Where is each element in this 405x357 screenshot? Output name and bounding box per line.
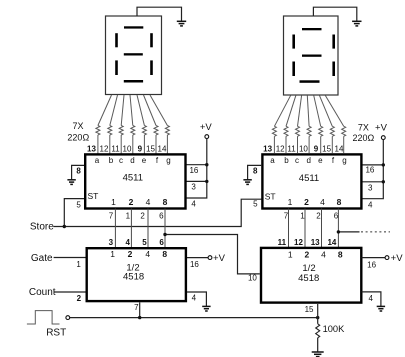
svg-text:5: 5 bbox=[142, 238, 147, 247]
wires DS2 segment fan-out bbox=[274, 95, 343, 126]
svg-text:2: 2 bbox=[316, 212, 321, 221]
svg-text:10: 10 bbox=[123, 145, 132, 154]
U1 top pin numbers bbox=[87, 145, 167, 154]
svg-text:2: 2 bbox=[304, 197, 309, 207]
svg-text:5: 5 bbox=[76, 200, 81, 209]
svg-text:14: 14 bbox=[158, 145, 167, 154]
DS1 segment a bbox=[124, 26, 143, 28]
svg-text:a: a bbox=[95, 156, 100, 165]
svg-text:4: 4 bbox=[145, 249, 150, 259]
svg-text:15: 15 bbox=[305, 305, 314, 314]
junction bbox=[138, 316, 141, 319]
node Store line bbox=[53, 199, 261, 226]
svg-text:+V: +V bbox=[375, 122, 388, 133]
svg-text:ST: ST bbox=[88, 191, 99, 201]
svg-text:8: 8 bbox=[163, 197, 168, 207]
ground G2 bbox=[67, 180, 75, 185]
wire Gate to U2 pin 1 bbox=[54, 257, 86, 259]
svg-text:d: d bbox=[130, 156, 134, 165]
svg-text:2: 2 bbox=[129, 197, 134, 207]
svg-text:2: 2 bbox=[128, 249, 133, 259]
U3 segment letters a-g bbox=[270, 156, 346, 165]
svg-text:4: 4 bbox=[192, 293, 197, 302]
svg-text:12: 12 bbox=[100, 145, 109, 154]
svg-text:g: g bbox=[342, 156, 346, 165]
U1 inside bottom BCD weights 1 2 4 8 bbox=[111, 197, 168, 207]
svg-text:13: 13 bbox=[263, 145, 272, 154]
DS1 segment c bbox=[150, 60, 153, 75]
svg-text:3: 3 bbox=[109, 238, 114, 247]
wire Count to U2 pin 2 bbox=[54, 291, 86, 293]
svg-text:RST: RST bbox=[46, 328, 66, 339]
svg-text:+V: +V bbox=[213, 253, 226, 264]
ground G5 bbox=[243, 180, 251, 185]
wire U2 pin 16 to +V terminal T2 bbox=[187, 257, 208, 259]
svg-text:1: 1 bbox=[110, 249, 115, 259]
svg-text:b: b bbox=[109, 156, 114, 165]
U3 top pin numbers bbox=[263, 145, 344, 154]
U1 bottom pin numbers 7 1 2 6 bbox=[109, 212, 164, 221]
svg-text:7: 7 bbox=[109, 212, 114, 221]
7-segment display DS1 bbox=[106, 16, 162, 95]
svg-text:4: 4 bbox=[368, 200, 373, 209]
DS2 segment a bbox=[302, 28, 322, 30]
svg-text:+V: +V bbox=[391, 253, 404, 264]
svg-text:12: 12 bbox=[276, 145, 285, 154]
svg-text:Store: Store bbox=[30, 221, 54, 232]
svg-text:15: 15 bbox=[322, 145, 331, 154]
wire U2 pin 7 reset to rail bbox=[139, 302, 141, 317]
svg-text:4: 4 bbox=[191, 200, 196, 209]
svg-text:13: 13 bbox=[311, 238, 320, 247]
svg-text:2: 2 bbox=[140, 212, 145, 221]
dotted continuation bbox=[361, 231, 390, 233]
svg-text:7: 7 bbox=[284, 212, 289, 221]
svg-text:6: 6 bbox=[159, 238, 164, 247]
ground G3 bbox=[202, 306, 210, 311]
resistor R8 100K bbox=[317, 318, 319, 324]
svg-text:10: 10 bbox=[248, 274, 257, 283]
wire +V rail to 4511 pins 16,3,4 bbox=[186, 139, 207, 199]
DS1 segment f bbox=[115, 33, 118, 47]
svg-text:3: 3 bbox=[191, 183, 196, 192]
svg-text:g: g bbox=[166, 156, 170, 165]
wire U4 pin 15 reset to rail bbox=[317, 304, 319, 318]
svg-text:+V: +V bbox=[200, 122, 213, 133]
svg-text:1: 1 bbox=[111, 197, 116, 207]
svg-text:8: 8 bbox=[76, 167, 81, 176]
svg-text:16: 16 bbox=[367, 261, 376, 270]
svg-text:ST: ST bbox=[265, 192, 276, 202]
svg-text:16: 16 bbox=[189, 166, 198, 175]
wires DS1 segment fan-out bbox=[98, 95, 167, 126]
wire U1 pin8 to ground bbox=[72, 165, 84, 179]
resistor network 7X 220ohm (left) bbox=[96, 126, 169, 154]
DS1 segment e bbox=[115, 60, 118, 75]
DS2 segment c bbox=[332, 62, 335, 77]
svg-text:2: 2 bbox=[77, 294, 82, 303]
svg-text:b: b bbox=[284, 156, 289, 165]
svg-text:e: e bbox=[318, 156, 323, 165]
DS2 segment f bbox=[292, 35, 295, 49]
svg-text:14: 14 bbox=[335, 145, 344, 154]
svg-text:11: 11 bbox=[287, 145, 296, 154]
U3 inside bottom BCD weights 1 2 4 8 bbox=[288, 197, 342, 207]
op: BCD decoder U1 4511 (left) bbox=[85, 154, 185, 208]
wire +V rail to U3 pins 16,3,4 bbox=[363, 140, 384, 199]
DS2 segment d bbox=[300, 80, 320, 83]
junction carry bbox=[163, 233, 166, 236]
svg-text:1: 1 bbox=[288, 250, 293, 260]
U1 segment letters a-g bbox=[95, 156, 171, 165]
svg-text:3: 3 bbox=[368, 183, 373, 192]
svg-text:8: 8 bbox=[162, 249, 167, 259]
RST pulse symbol bbox=[27, 311, 60, 324]
svg-text:9: 9 bbox=[138, 145, 143, 154]
ground G1 bbox=[177, 21, 186, 26]
svg-text:8: 8 bbox=[253, 167, 258, 176]
DS1 segment b bbox=[150, 33, 153, 47]
svg-text:4: 4 bbox=[320, 197, 325, 207]
svg-text:4: 4 bbox=[368, 294, 373, 303]
wire DS2 common to ground bbox=[313, 7, 356, 21]
svg-text:220Ω: 220Ω bbox=[353, 133, 375, 143]
svg-text:4511: 4511 bbox=[299, 173, 319, 184]
wire DS1 common to ground bbox=[137, 7, 182, 21]
svg-text:c: c bbox=[295, 156, 299, 165]
ground G6 bbox=[377, 306, 385, 311]
wires U3 BCD inputs to U4 outputs bbox=[289, 209, 339, 248]
junction bbox=[382, 163, 385, 166]
svg-text:12: 12 bbox=[294, 238, 303, 247]
svg-text:15: 15 bbox=[146, 145, 155, 154]
svg-text:1: 1 bbox=[126, 212, 131, 221]
svg-text:4518: 4518 bbox=[123, 272, 144, 283]
svg-text:4: 4 bbox=[321, 250, 326, 260]
U3 bottom pin numbers 7 1 2 6 bbox=[284, 212, 339, 221]
svg-text:c: c bbox=[119, 156, 123, 165]
svg-text:1: 1 bbox=[300, 212, 305, 221]
svg-text:220Ω: 220Ω bbox=[67, 133, 89, 143]
counter U2 1/2 4518 (left) bbox=[87, 248, 186, 301]
DS1 segment d bbox=[124, 80, 143, 83]
counter U4 1/2 4518 (right) bbox=[261, 248, 361, 303]
svg-text:8: 8 bbox=[338, 250, 343, 260]
junction Store bbox=[63, 225, 66, 228]
wire carry Q6 to U4 pin 10 bbox=[165, 235, 260, 274]
ground G4 bbox=[352, 21, 361, 26]
BCD decoder U3 4511 (right) bbox=[262, 154, 361, 208]
svg-text:1: 1 bbox=[288, 197, 293, 207]
svg-text:e: e bbox=[142, 156, 147, 165]
junction bbox=[316, 316, 319, 319]
ground G7 bbox=[312, 352, 324, 357]
svg-text:4518: 4518 bbox=[298, 273, 319, 284]
U2 inside top weights 1 2 4 8 bbox=[110, 249, 167, 259]
svg-text:6: 6 bbox=[159, 212, 164, 221]
svg-text:9: 9 bbox=[314, 145, 319, 154]
junction bbox=[205, 163, 208, 166]
svg-text:2: 2 bbox=[305, 250, 310, 260]
svg-text:Count: Count bbox=[29, 287, 56, 298]
svg-text:a: a bbox=[270, 156, 275, 165]
wire Store to U1 ST pin 5 bbox=[64, 199, 84, 227]
DS1 segment g bbox=[124, 53, 143, 55]
wire U3 pin8 to ground bbox=[248, 165, 262, 179]
wire U4 pin 4 to ground bbox=[362, 292, 381, 306]
svg-text:100K: 100K bbox=[323, 324, 346, 334]
svg-text:Gate: Gate bbox=[31, 253, 53, 264]
svg-text:4: 4 bbox=[125, 238, 130, 247]
svg-text:4: 4 bbox=[146, 197, 151, 207]
wire U4 pin 16 to +V terminal T4 bbox=[362, 257, 386, 259]
svg-text:5: 5 bbox=[253, 200, 258, 209]
svg-text:11: 11 bbox=[111, 145, 120, 154]
svg-text:13: 13 bbox=[87, 145, 96, 154]
svg-text:16: 16 bbox=[190, 260, 199, 269]
svg-text:7: 7 bbox=[134, 303, 139, 312]
svg-text:11: 11 bbox=[278, 238, 287, 247]
svg-text:d: d bbox=[306, 156, 310, 165]
svg-text:7X: 7X bbox=[358, 122, 369, 132]
svg-text:10: 10 bbox=[299, 145, 308, 154]
junction bbox=[205, 180, 208, 183]
junction bbox=[382, 180, 385, 183]
U2 top pin numbers 3 4 5 6 bbox=[109, 238, 165, 247]
svg-text:1: 1 bbox=[76, 260, 81, 269]
RST terminal bbox=[66, 316, 70, 320]
junction bbox=[337, 230, 340, 233]
svg-text:7X: 7X bbox=[72, 121, 83, 131]
resistor network 7X 220ohm (right) bbox=[272, 126, 345, 153]
node RST rail bbox=[70, 317, 318, 319]
svg-text:4511: 4511 bbox=[123, 173, 143, 184]
svg-text:6: 6 bbox=[334, 212, 339, 221]
U4 top pin numbers 11 12 13 14 bbox=[278, 238, 337, 247]
wire MSB carry with dotted continuation bbox=[338, 231, 359, 233]
DS2 segment b bbox=[332, 35, 335, 49]
wires U1 BCD inputs to U2 outputs bbox=[115, 209, 165, 249]
svg-text:14: 14 bbox=[327, 238, 336, 247]
DS2 segment e bbox=[292, 62, 295, 77]
DS2 segment g bbox=[302, 55, 322, 57]
wire U2 pin 4 to ground bbox=[187, 292, 206, 306]
svg-text:16: 16 bbox=[365, 166, 374, 175]
7-segment display DS2 bbox=[284, 16, 339, 95]
U4 inside top weights 1 2 4 8 bbox=[288, 250, 343, 260]
svg-text:8: 8 bbox=[337, 197, 342, 207]
